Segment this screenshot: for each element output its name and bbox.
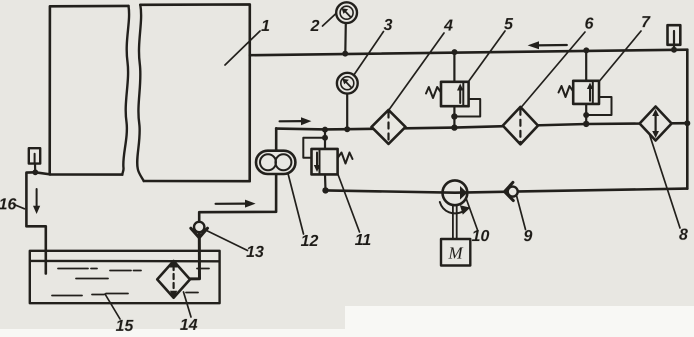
cylinder 1 right section wavy break edge [137,5,144,181]
junction: valve 11 on middle line [322,127,328,133]
motor M [441,239,470,266]
svg-text:9: 9 [524,228,533,245]
leader 11 [338,175,360,233]
junction: valve 7 on middle line [583,121,589,127]
svg-text:6: 6 [585,16,594,33]
junction: valve 7 pilot line [583,112,589,118]
junction: valve 11 on bottom line [322,187,328,193]
pump 10 [443,180,468,205]
wire: top line from cylinder to right corner [250,50,688,56]
flow arrow right on middle line (before filter 4) [280,120,302,122]
filter 4 [372,110,406,144]
flow meter 12 [256,151,295,174]
svg-text:13: 13 [246,244,264,261]
tank liquid dashes [52,269,209,296]
leader 16 [14,205,25,209]
svg-text:4: 4 [443,18,453,35]
flow arrow right on lower-left line [216,203,246,205]
leader 8 [650,135,681,229]
relief valve 5 [453,52,455,82]
check valve 9 [508,187,518,197]
junction: valve 5 pilot line [451,113,457,119]
wire: flow-meter vertical [199,128,276,222]
junction: middle line to right vertical [684,120,690,126]
tank liquid level line [31,260,219,263]
wire: middle line [276,123,687,129]
relief valve 7 [585,50,587,80]
pressure gauge 2 [344,23,347,54]
wire: cylinder bottom to symbol 16 [35,172,50,174]
leader 14 [184,292,192,317]
breather symbol top-right [668,25,681,45]
leader 3 [354,32,384,76]
svg-text:5: 5 [504,16,514,33]
leader 6 [521,32,585,108]
svg-text:3: 3 [384,17,393,34]
svg-text:M: M [447,244,463,263]
svg-text:8: 8 [679,227,688,244]
leader 4 [389,33,444,110]
motor shaft [452,205,454,239]
leader 10 [467,200,478,231]
cylinder 1 left section [50,6,129,175]
svg-text:10: 10 [472,228,490,245]
junction: gauge 3 on middle line [344,126,350,132]
svg-text:15: 15 [116,318,135,335]
wire: bottom pump line [326,189,687,193]
leader 9 [517,196,526,230]
svg-text:1: 1 [261,18,270,35]
cylinder 1 right section [140,4,250,181]
cylinder 1 left section wavy break edge [122,6,129,175]
leader 1 [225,31,260,65]
breather symbol 16 [29,148,40,163]
relief valve 11 [324,130,326,149]
wire: suction pipe from check valve 13 into tank [190,232,199,279]
filter 6 [503,107,538,144]
pressure gauge 3 [346,94,348,130]
leader 7 [600,31,642,81]
leader 13 [207,231,248,251]
svg-text:12: 12 [301,233,319,250]
svg-text:16: 16 [0,196,16,213]
leader 5 [469,31,506,82]
leader 2 [323,14,337,27]
tank 15 [30,251,220,303]
junction: valve 11 pilot line [322,135,328,141]
junction: valve 5 on top line [452,49,458,55]
svg-text:7: 7 [641,14,651,31]
junction: drain line at symbol 16 [32,169,38,175]
svg-text:11: 11 [355,232,372,249]
flow arrow left on top line [536,44,567,47]
wire: drain pipe from 16 down into tank [26,172,45,273]
leader 15 [105,294,120,319]
junction: valve 5 on middle line [451,124,457,130]
check valve 13 [194,222,204,232]
junction: breather on top line [671,47,677,53]
wire: right vertical line [686,50,689,189]
filter 14 [157,261,190,298]
junction: gauge 2 on top line [342,51,348,57]
svg-text:14: 14 [180,317,198,334]
flow arrow down on drain pipe [36,189,38,207]
heat exchanger 8 [640,107,672,141]
svg-text:2: 2 [310,18,320,35]
leader 12 [288,174,304,235]
junction: valve 7 on top line [583,47,589,53]
